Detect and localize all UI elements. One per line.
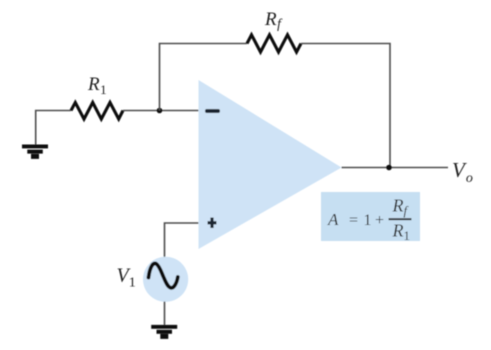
formula box A = 1 + Rf/R1 xyxy=(321,192,420,241)
svg-text:1: 1 xyxy=(364,212,372,229)
ground (bottom) xyxy=(152,325,177,338)
svg-text:=: = xyxy=(349,212,358,229)
pin + (non-inverting input) xyxy=(208,218,217,229)
op-amp U1 xyxy=(199,80,342,249)
wire xyxy=(160,44,248,111)
resistor R1 xyxy=(71,103,123,120)
svg-text:Rf: Rf xyxy=(264,9,283,31)
svg-text:V1: V1 xyxy=(117,265,136,291)
resistor Rf xyxy=(247,35,301,52)
node A (inverting input junction) xyxy=(157,108,163,114)
wire (output) xyxy=(342,167,449,169)
sine wave xyxy=(149,263,178,287)
ground xyxy=(23,145,48,158)
svg-text:Vo: Vo xyxy=(452,158,473,186)
wire xyxy=(301,44,390,168)
wire xyxy=(123,110,199,112)
svg-text:A: A xyxy=(327,210,339,229)
node B (output junction) xyxy=(386,165,392,171)
svg-text:R1: R1 xyxy=(87,74,107,97)
svg-text:+: + xyxy=(375,212,384,229)
source V1 (circle) xyxy=(143,257,188,302)
wire xyxy=(164,302,166,327)
pin - (inverting input) xyxy=(207,109,218,113)
wire xyxy=(165,223,199,258)
wire xyxy=(36,111,71,147)
